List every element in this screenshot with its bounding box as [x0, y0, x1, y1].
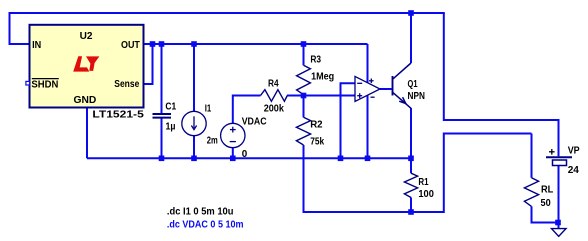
wire R2 bottom lead: [303, 145, 305, 213]
wire I1 bottom: [193, 136, 195, 159]
svg-text:RL: RL: [541, 184, 554, 196]
junction I1-OUT: [191, 41, 197, 47]
wire top rail: [10, 14, 30, 44]
svg-text:1Meg: 1Meg: [311, 70, 334, 82]
svg-text:OUT: OUT: [121, 39, 140, 51]
resistor RL: [524, 178, 538, 207]
svg-text:Sense: Sense: [114, 78, 139, 90]
wire C1 bottom: [161, 118, 163, 159]
wire bottom sense line: [304, 134, 532, 213]
junction R1 bottom-sense line: [408, 209, 414, 215]
wire VDAC bottom: [232, 148, 234, 159]
wire R1 top lead: [410, 158, 412, 173]
wire opamp minus input: [341, 83, 356, 158]
current source I1: [182, 111, 206, 135]
wire: [9, 12, 445, 14]
svg-text:U2: U2: [80, 30, 93, 42]
svg-text:VP: VP: [568, 145, 580, 157]
wire collector up: [410, 13, 412, 63]
svg-text:75k: 75k: [310, 135, 324, 147]
capacitor C1: [153, 114, 172, 118]
svg-text:SHDN: SHDN: [31, 79, 58, 91]
junction R3-OUT: [301, 41, 307, 47]
wire R3 top lead: [303, 44, 305, 65]
wire opamp plus input: [304, 95, 356, 97]
wire R4 right lead: [287, 95, 304, 97]
svg-text:50: 50: [541, 197, 551, 209]
junction emitter-R1-gnd rail: [408, 156, 414, 162]
voltage source VDAC: [221, 123, 245, 147]
wire R1 bottom lead: [410, 198, 412, 213]
svg-text:2m: 2m: [207, 134, 218, 146]
svg-text:200k: 200k: [264, 102, 284, 114]
wire opamp Vminus: [367, 95, 369, 158]
junction opamp inv input-gnd rail: [338, 156, 344, 162]
transistor Q1: [393, 63, 412, 108]
svg-text:VDAC: VDAC: [242, 115, 267, 127]
svg-text:Q1: Q1: [408, 78, 418, 90]
SHDN overline: [32, 78, 59, 80]
wire opamp Vplus: [367, 44, 369, 83]
svg-text:R4: R4: [268, 78, 279, 90]
wire RL bottom lead: [532, 206, 559, 222]
wire VP bottom to ground: [558, 166, 560, 229]
svg-text:.dc I1 0 5m 10u: .dc I1 0 5m 10u: [167, 206, 234, 218]
svg-text:24: 24: [568, 164, 579, 176]
junction Sense-OUT: [150, 41, 156, 47]
resistor R1: [404, 173, 417, 197]
wire I1 top: [193, 44, 195, 112]
wire R3-R2 node: [303, 94, 305, 117]
wire GND pin down: [86, 108, 88, 159]
svg-text:R1: R1: [418, 176, 428, 188]
wire OUT rail: [144, 43, 368, 45]
resistor R3: [297, 65, 311, 94]
svg-text:0: 0: [242, 148, 248, 160]
svg-text:100: 100: [418, 188, 434, 200]
junction collector top rail: [408, 10, 414, 16]
resistor R2: [296, 117, 310, 145]
wire VDAC top: [233, 96, 261, 124]
op-amp U1: [355, 76, 380, 101]
wire RL top lead: [531, 134, 533, 178]
wire VP feed: [444, 13, 559, 156]
junction VDAC-gnd rail: [230, 156, 236, 162]
svg-text:R3: R3: [310, 54, 321, 66]
wire ground rail: [87, 157, 411, 159]
wire opamp output to base: [380, 88, 392, 90]
svg-text:LT1521-5: LT1521-5: [92, 108, 144, 120]
svg-text:I1: I1: [205, 103, 212, 115]
svg-text:NPN: NPN: [408, 90, 425, 102]
resistor R4: [261, 90, 288, 102]
junction opamp Vminus-gnd rail: [365, 156, 371, 162]
node R3-R4-R2: [301, 93, 307, 99]
U2 regulator body: [30, 25, 144, 108]
svg-text:.dc VDAC 0 5 10m: .dc VDAC 0 5 10m: [167, 219, 244, 231]
wire C1 top: [161, 44, 163, 114]
pin SHDN open terminal: [26, 81, 30, 85]
battery VP: [546, 149, 572, 166]
junction RL-VP-ground: [555, 220, 561, 226]
wire sense stub: [144, 44, 153, 84]
junction I1-gnd rail: [191, 156, 197, 162]
svg-text:C1: C1: [165, 100, 176, 112]
ground: [552, 229, 567, 237]
svg-text:1µ: 1µ: [166, 120, 176, 132]
junction C1-OUT: [159, 41, 165, 47]
U2 LT logo: [73, 56, 99, 71]
wire emitter down: [410, 108, 412, 158]
junction C1-gnd rail: [159, 156, 165, 162]
svg-text:R2: R2: [310, 118, 323, 130]
svg-text:IN: IN: [32, 39, 41, 51]
svg-text:GND: GND: [74, 94, 97, 106]
